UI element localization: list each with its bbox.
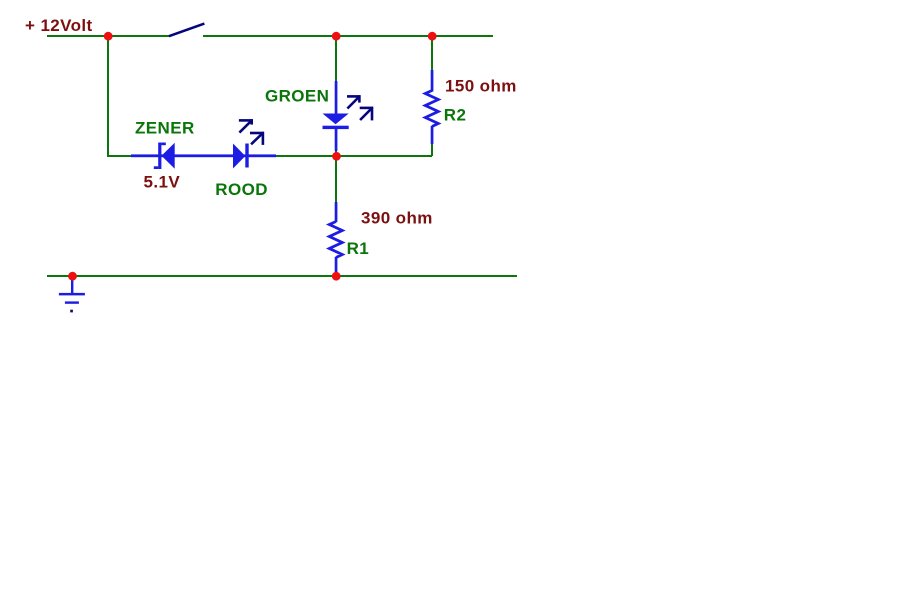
svg-text:390 ohm: 390 ohm (361, 209, 433, 228)
svg-text:ZENER: ZENER (135, 119, 195, 138)
svg-text:ROOD: ROOD (215, 180, 268, 199)
svg-text:5.1V: 5.1V (144, 172, 181, 191)
svg-text:+ 12Volt: + 12Volt (25, 16, 93, 35)
svg-text:R2: R2 (444, 106, 467, 125)
svg-text:R1: R1 (347, 239, 370, 258)
svg-text:GROEN: GROEN (265, 87, 329, 106)
svg-text:150 ohm: 150 ohm (445, 76, 517, 95)
